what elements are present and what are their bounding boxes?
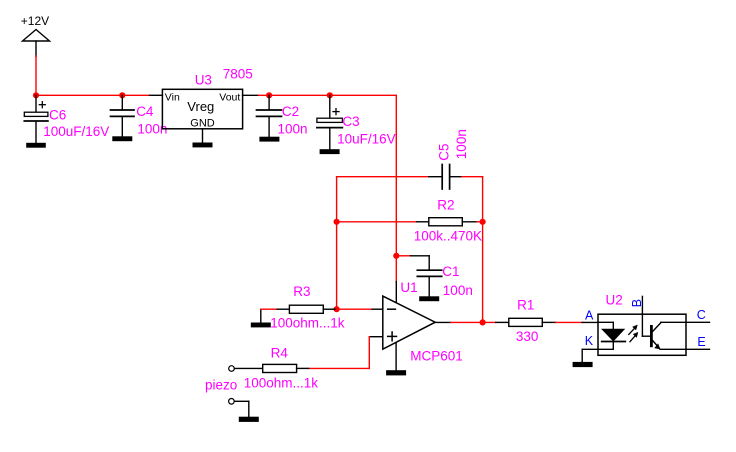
voltage regulator U3 7805 [162, 67, 258, 143]
wire pin K to ground [582, 349, 598, 362]
ground (C1) [419, 296, 439, 301]
svg-text:C4: C4 [136, 104, 154, 119]
svg-text:100uF/16V: 100uF/16V [43, 124, 109, 139]
op-amp U1 MCP601 [383, 280, 463, 370]
wire C5 branch right [462, 176, 483, 178]
svg-text:Vreg: Vreg [187, 99, 214, 114]
wire feedback right vertical [482, 177, 484, 323]
+12V power symbol [21, 14, 50, 56]
light arrows [629, 325, 638, 342]
node junction 5V to C1 [393, 253, 399, 259]
svg-text:C: C [697, 308, 706, 322]
svg-text:100ohm...1k: 100ohm...1k [270, 315, 345, 330]
wire R1 to U2 [556, 321, 598, 323]
optocoupler U2 [598, 292, 686, 355]
svg-text:E: E [697, 335, 705, 349]
capacitor C6 100uF/16V [24, 95, 109, 143]
capacitor C3 10uF/16V [317, 95, 396, 149]
svg-text:GND: GND [190, 118, 215, 130]
svg-text:C3: C3 [342, 114, 359, 129]
ground (C6) [26, 143, 46, 148]
resistor R2 100k..470K [414, 197, 482, 243]
node junction C3 [327, 92, 333, 98]
wire plus input [309, 337, 383, 369]
svg-text:+12V: +12V [21, 14, 49, 28]
piezo terminal 2 [229, 399, 235, 405]
node junction at +12V rail [33, 92, 39, 98]
capacitor C4 100n [111, 95, 168, 136]
wire pin C [661, 321, 710, 323]
wire Vout rail [259, 94, 397, 96]
svg-text:K: K [585, 334, 594, 348]
capacitor C2 100n [257, 95, 308, 136]
resistor R3 100ohm...1k [261, 284, 345, 330]
resistor R1 330 [496, 298, 556, 345]
ground (C3) [320, 149, 340, 154]
capacitor C1 100n [417, 264, 473, 298]
ground (U1) [386, 370, 406, 375]
wire pin E [660, 348, 710, 350]
svg-text:100n: 100n [278, 122, 308, 137]
svg-text:U2: U2 [606, 292, 623, 307]
svg-text:piezo: piezo [205, 378, 237, 393]
ground (C4) [112, 136, 132, 141]
ground (K) [573, 362, 593, 367]
svg-text:100n: 100n [454, 129, 469, 159]
node junction R2 right [480, 219, 486, 225]
capacitor C5 100n [429, 129, 469, 189]
svg-text:C5: C5 [437, 143, 452, 160]
svg-text:A: A [585, 308, 594, 322]
svg-text:10uF/16V: 10uF/16V [337, 131, 396, 146]
piezo terminal 1 [229, 366, 235, 372]
wire C1 branch [396, 256, 429, 270]
node junction minus input [334, 306, 340, 312]
wire pin B [642, 296, 650, 336]
ground (R3) [251, 323, 271, 328]
node junction R2 left [334, 219, 340, 225]
svg-text:330: 330 [516, 329, 539, 344]
node junction output [480, 319, 486, 325]
phototransistor inside U2 [651, 323, 661, 349]
ground (U3) [193, 143, 213, 148]
wire R2 left [337, 221, 417, 223]
wire feedback left vertical [336, 177, 338, 310]
svg-text:C6: C6 [49, 108, 66, 123]
svg-text:C2: C2 [282, 104, 299, 119]
svg-text:Vin: Vin [165, 91, 180, 103]
ground (C2) [259, 137, 279, 142]
svg-text:100n: 100n [443, 283, 473, 298]
wire +12V to rail [35, 56, 37, 95]
ground (piezo) [239, 417, 259, 422]
resistor R4 100ohm...1k [235, 346, 318, 391]
svg-text:7805: 7805 [223, 67, 253, 82]
LED inside U2 [598, 322, 625, 349]
svg-text:MCP601: MCP601 [410, 349, 463, 364]
node junction C2 [266, 92, 272, 98]
wire minus input [337, 308, 383, 310]
svg-text:R4: R4 [271, 346, 289, 361]
wire R2 right [477, 221, 483, 223]
svg-text:Vout: Vout [219, 91, 240, 103]
svg-text:U1: U1 [400, 280, 417, 295]
svg-text:R1: R1 [517, 298, 534, 313]
svg-text:100ohm...1k: 100ohm...1k [244, 376, 319, 391]
node junction C4 [119, 92, 125, 98]
svg-text:R3: R3 [293, 284, 310, 299]
wire 5V vertical drop [395, 95, 397, 256]
svg-text:100k..470K: 100k..470K [414, 228, 482, 243]
svg-text:R2: R2 [437, 197, 454, 212]
svg-text:U3: U3 [195, 73, 212, 88]
wire top rail [36, 94, 162, 96]
wire C5 branch left [337, 176, 429, 178]
wire piezo ground [235, 401, 249, 416]
wire opamp V+ pin [395, 256, 397, 303]
svg-text:C1: C1 [442, 264, 459, 279]
wire opamp output [451, 321, 496, 323]
